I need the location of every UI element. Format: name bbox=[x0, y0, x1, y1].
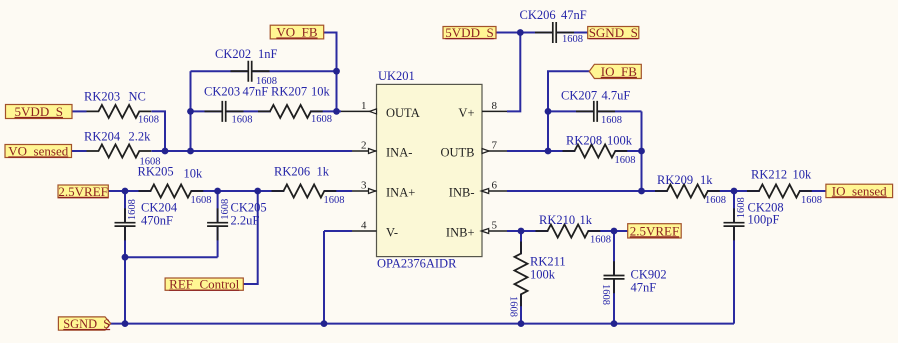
ground label SGND_S top bbox=[588, 25, 639, 40]
svg-text:47nF: 47nF bbox=[243, 84, 269, 98]
svg-text:RK208: RK208 bbox=[566, 134, 602, 148]
pin 3 arrowhead bbox=[369, 189, 376, 194]
svg-text:100pF: 100pF bbox=[748, 212, 780, 226]
power label 5VDD_S top bbox=[443, 25, 496, 40]
junction CK205 top bbox=[214, 188, 221, 195]
net label IO_FB bbox=[589, 64, 641, 79]
svg-text:1k: 1k bbox=[700, 173, 713, 187]
resistor RK207 bbox=[258, 105, 323, 118]
power label 2.5VREF left bbox=[58, 184, 108, 199]
svg-text:CK206: CK206 bbox=[520, 8, 556, 22]
svg-text:RK205: RK205 bbox=[138, 164, 174, 178]
junction x190 CK203 row bbox=[187, 108, 194, 115]
wire RK211 vertical to ground bbox=[520, 231, 522, 324]
junction ground CK902 bbox=[611, 320, 618, 327]
svg-text:2.5VREF: 2.5VREF bbox=[630, 223, 679, 238]
wire VO_FB down to pin 1 net bbox=[324, 33, 337, 112]
capacitor CK202 bbox=[231, 61, 270, 82]
wire CK205 vertical bbox=[217, 191, 219, 257]
capacitor CK207 bbox=[576, 101, 615, 122]
wire RK204 to pin 2 INA- bbox=[152, 150, 353, 152]
wire CK204 CK205 bottom link bbox=[125, 256, 218, 258]
wire 5VDD_S to RK203 bbox=[72, 110, 87, 112]
svg-text:REF_Control: REF_Control bbox=[169, 277, 239, 292]
svg-text:CK204: CK204 bbox=[141, 201, 178, 215]
svg-text:INB-: INB- bbox=[449, 186, 475, 200]
junction ground CK204 bbox=[122, 320, 129, 327]
wire V- vertical to ground bbox=[323, 231, 325, 324]
svg-text:1608: 1608 bbox=[232, 115, 253, 126]
svg-text:6: 6 bbox=[492, 179, 498, 191]
svg-text:1nF: 1nF bbox=[258, 47, 278, 61]
svg-text:IO_sensed: IO_sensed bbox=[832, 183, 887, 198]
svg-text:RK210: RK210 bbox=[539, 213, 575, 227]
svg-text:SGND_S: SGND_S bbox=[63, 317, 110, 331]
wire VO_sensed label to RK204 bbox=[72, 150, 87, 152]
pin 7 OUTB stub bbox=[482, 150, 507, 152]
svg-text:UK201: UK201 bbox=[378, 69, 415, 83]
wire 5VDD_S down to pin 8 V+ bbox=[507, 33, 520, 112]
svg-text:INA+: INA+ bbox=[386, 186, 415, 200]
svg-text:4: 4 bbox=[361, 219, 367, 231]
pin 3 INA+ stub bbox=[352, 190, 377, 192]
svg-text:5VDD_S: 5VDD_S bbox=[15, 104, 63, 119]
svg-text:47nF: 47nF bbox=[631, 281, 657, 295]
pin 8 V+ stub bbox=[482, 110, 507, 112]
capacitor CK205 bbox=[207, 208, 228, 240]
ground label SGND_S bottom bbox=[58, 317, 110, 331]
wire 2.5VREF RK205 RK206 row to pin 3 INA+ bbox=[108, 190, 352, 192]
svg-text:RK206: RK206 bbox=[274, 164, 310, 178]
svg-text:CK902: CK902 bbox=[631, 268, 667, 282]
svg-text:RK211: RK211 bbox=[530, 255, 566, 269]
junction CK208 top bbox=[731, 188, 738, 195]
junction CK202 right bbox=[333, 68, 340, 75]
svg-text:1608: 1608 bbox=[127, 199, 138, 220]
svg-text:1608: 1608 bbox=[601, 115, 622, 126]
svg-text:1608: 1608 bbox=[562, 34, 583, 45]
svg-text:2: 2 bbox=[361, 139, 367, 151]
svg-text:RK204: RK204 bbox=[84, 129, 121, 143]
svg-text:CK205: CK205 bbox=[231, 201, 267, 215]
wire CK203 RK207 row to pin 1 bbox=[191, 110, 342, 112]
svg-text:8: 8 bbox=[492, 100, 498, 112]
svg-text:1608: 1608 bbox=[736, 197, 747, 218]
svg-text:V+: V+ bbox=[458, 106, 474, 120]
svg-text:2.2uF: 2.2uF bbox=[231, 214, 260, 228]
svg-text:47nF: 47nF bbox=[561, 8, 587, 22]
svg-text:1608: 1608 bbox=[705, 195, 726, 206]
svg-text:1608: 1608 bbox=[590, 235, 611, 246]
pin 4 V- stub bbox=[352, 230, 377, 232]
svg-text:10k: 10k bbox=[184, 167, 204, 181]
svg-text:1608: 1608 bbox=[138, 115, 159, 126]
junction RK203 drop on INA- net bbox=[162, 148, 169, 155]
junction INB- feedback bbox=[638, 188, 645, 195]
wire REF_Control to node bbox=[243, 191, 257, 284]
svg-text:NC: NC bbox=[129, 89, 146, 103]
svg-text:V-: V- bbox=[386, 226, 398, 240]
resistor RK208 bbox=[563, 145, 628, 158]
svg-text:INB+: INB+ bbox=[446, 226, 475, 240]
junction CK204 top bbox=[122, 188, 129, 195]
svg-text:IO_FB: IO_FB bbox=[601, 64, 637, 79]
resistor RK204 bbox=[87, 145, 152, 158]
junction 5VDD_S top bbox=[517, 29, 524, 36]
svg-text:5VDD_S: 5VDD_S bbox=[445, 25, 493, 40]
wire INB+ RK210 row to 2.5VREF bbox=[507, 230, 628, 232]
svg-text:3: 3 bbox=[361, 179, 367, 191]
pin 5 INB+ stub bbox=[482, 230, 507, 232]
wire OUTB RK208 row bbox=[507, 150, 642, 152]
pin 1 arrowhead bbox=[370, 109, 377, 114]
resistor RK211 bbox=[515, 242, 528, 307]
svg-text:1608: 1608 bbox=[191, 195, 212, 206]
svg-text:CK207: CK207 bbox=[561, 88, 597, 102]
svg-text:1608: 1608 bbox=[324, 195, 345, 206]
svg-text:VO_FB: VO_FB bbox=[276, 24, 318, 39]
svg-text:470nF: 470nF bbox=[141, 214, 173, 228]
junction ground RK211 bbox=[518, 320, 525, 327]
pin 1 OUTA stub bbox=[341, 110, 377, 112]
svg-text:CK202: CK202 bbox=[215, 47, 251, 61]
svg-text:VO_sensed: VO_sensed bbox=[8, 143, 68, 158]
wire CK202 row bbox=[191, 70, 337, 72]
wire IO_FB down to pin 7 OUTB bbox=[548, 71, 589, 151]
pin 2 INA- stub bbox=[352, 150, 377, 152]
power label 5VDD_S left bbox=[6, 104, 73, 119]
svg-text:RK209: RK209 bbox=[657, 173, 693, 187]
junction pin 1 node bbox=[333, 108, 340, 115]
svg-text:2.2k: 2.2k bbox=[129, 129, 152, 143]
junction CK204 bottom link bbox=[122, 254, 129, 261]
op-amp UK201 OPA2376AIDR body bbox=[377, 84, 483, 256]
wire CK207 right vertical to INB- bbox=[641, 111, 643, 191]
svg-text:OUTB: OUTB bbox=[440, 146, 474, 160]
svg-text:CK203: CK203 bbox=[204, 84, 240, 98]
svg-text:RK203: RK203 bbox=[84, 89, 120, 103]
resistor RK206 bbox=[272, 185, 337, 198]
wire CK207 row bbox=[548, 110, 642, 112]
junction RK211 top bbox=[518, 228, 525, 235]
power label 2.5VREF right bbox=[628, 223, 682, 238]
resistor RK209 bbox=[655, 185, 720, 198]
junction REF_Control node bbox=[254, 188, 261, 195]
capacitor CK204 bbox=[115, 208, 136, 240]
svg-text:RK212: RK212 bbox=[751, 168, 787, 182]
svg-text:1608: 1608 bbox=[801, 195, 822, 206]
junction CK902 top bbox=[611, 228, 618, 235]
svg-text:2.5VREF: 2.5VREF bbox=[58, 184, 107, 199]
junction x190 INA- row bbox=[187, 148, 194, 155]
net label IO_sensed bbox=[826, 183, 893, 198]
net label VO_sensed bbox=[5, 143, 72, 158]
resistor RK212 bbox=[747, 185, 812, 198]
wire CK208 vertical to ground bbox=[733, 191, 735, 324]
wire top 5VDD_S CK206 SGND_S row bbox=[496, 32, 588, 34]
svg-text:100k: 100k bbox=[607, 134, 633, 148]
svg-text:OPA2376AIDR: OPA2376AIDR bbox=[377, 257, 457, 271]
svg-text:1608: 1608 bbox=[311, 114, 332, 125]
net label REF_Control bbox=[165, 277, 243, 292]
junction ground V- bbox=[321, 320, 328, 327]
wire CK902 vertical to ground bbox=[613, 231, 615, 324]
pin 7 arrowhead bbox=[482, 149, 489, 154]
wire SGND_S bottom rail bbox=[111, 323, 735, 325]
svg-text:1608: 1608 bbox=[600, 284, 611, 305]
svg-text:1608: 1608 bbox=[615, 155, 636, 166]
svg-text:1k: 1k bbox=[580, 213, 593, 227]
resistor RK210 bbox=[536, 225, 601, 238]
capacitor CK203 bbox=[205, 101, 244, 122]
svg-text:4.7uF: 4.7uF bbox=[602, 88, 631, 102]
svg-text:SGND_S: SGND_S bbox=[589, 25, 638, 40]
pin 6 INB- stub bbox=[482, 190, 507, 192]
wire vertical node INA- branch x190 bbox=[190, 71, 192, 151]
svg-text:7: 7 bbox=[492, 139, 498, 151]
svg-text:1k: 1k bbox=[317, 164, 330, 178]
svg-text:5: 5 bbox=[492, 219, 498, 231]
pin 2 arrowhead bbox=[369, 149, 376, 154]
junction RK208 right bbox=[638, 148, 645, 155]
wire pin 4 V- bbox=[324, 230, 352, 232]
wire RK203 to VO_sensed net bbox=[152, 111, 166, 151]
resistor RK205 bbox=[139, 185, 204, 198]
capacitor CK902 bbox=[604, 261, 625, 293]
net label VO_FB bbox=[270, 24, 324, 39]
svg-text:OUTA: OUTA bbox=[386, 106, 420, 120]
svg-text:1: 1 bbox=[361, 100, 367, 112]
junction CK207 left bbox=[545, 108, 552, 115]
capacitor CK206 bbox=[535, 22, 574, 43]
wire INB- RK209 RK212 row to IO_sensed bbox=[507, 190, 826, 192]
svg-text:1608: 1608 bbox=[508, 296, 519, 317]
svg-text:10k: 10k bbox=[793, 168, 813, 182]
junction OUTB IO_FB bbox=[545, 148, 552, 155]
wire CK204 vertical to ground bbox=[124, 191, 126, 324]
pin 6 arrowhead bbox=[481, 189, 489, 194]
svg-text:1608: 1608 bbox=[220, 199, 231, 220]
svg-text:INA-: INA- bbox=[386, 146, 412, 160]
svg-text:10k: 10k bbox=[311, 84, 331, 98]
svg-text:100k: 100k bbox=[530, 268, 556, 282]
resistor RK203 bbox=[87, 105, 152, 118]
capacitor CK208 bbox=[724, 208, 745, 240]
pin 5 arrowhead bbox=[481, 229, 489, 234]
